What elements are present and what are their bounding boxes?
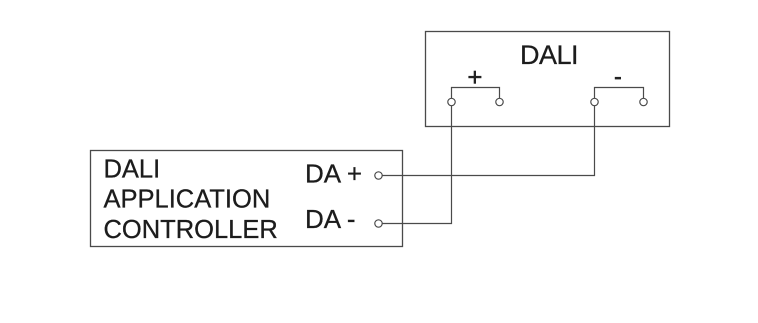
svg-text:DA -: DA -	[305, 204, 356, 234]
svg-text:CONTROLLER: CONTROLLER	[104, 216, 278, 244]
svg-text:DA +: DA +	[305, 159, 362, 189]
svg-text:DALI: DALI	[520, 40, 578, 70]
svg-text:DALI: DALI	[104, 156, 161, 184]
svg-text:APPLICATION: APPLICATION	[104, 186, 271, 214]
